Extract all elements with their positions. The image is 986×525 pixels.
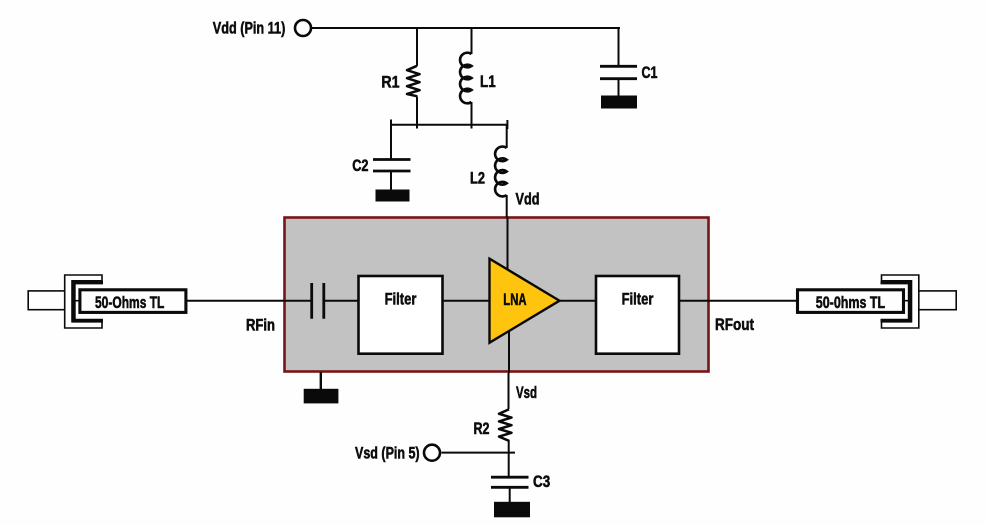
label L1 bbox=[480, 73, 496, 91]
capacitor C1 bbox=[600, 66, 637, 78]
ground C1 bbox=[601, 96, 637, 109]
svg-text:Vdd: Vdd bbox=[516, 191, 540, 209]
svg-text:LNA: LNA bbox=[503, 291, 526, 309]
capacitor C2 bbox=[373, 160, 411, 172]
wire L1 lower lead bbox=[471, 102, 473, 129]
ground C2 bbox=[376, 190, 410, 202]
label Filter 2 bbox=[622, 291, 654, 309]
label RFout bbox=[715, 316, 754, 334]
wire R1 upper lead bbox=[416, 28, 418, 66]
wire RFout bbox=[679, 300, 798, 302]
label L2 bbox=[470, 169, 485, 187]
svg-text:Filter: Filter bbox=[622, 291, 654, 309]
transmission line box right bbox=[798, 290, 904, 313]
wire LNA supply (inside box) bbox=[507, 218, 509, 273]
label 50-Ohms TL left bbox=[95, 294, 164, 312]
connector right plug body bbox=[919, 291, 956, 310]
svg-text:50-0hms TL: 50-0hms TL bbox=[816, 294, 885, 312]
wire stub connector to TL box left bbox=[74, 300, 80, 302]
terminal Vsd (Pin 5) label bbox=[355, 444, 420, 462]
wire R1 lower lead bbox=[416, 97, 418, 129]
svg-text:Vsd (Pin 5): Vsd (Pin 5) bbox=[355, 444, 420, 462]
svg-text:R2: R2 bbox=[474, 420, 490, 438]
label RFin bbox=[246, 317, 275, 335]
label Filter 1 bbox=[385, 291, 417, 309]
wire RFin bbox=[187, 300, 311, 302]
svg-text:C2: C2 bbox=[352, 157, 368, 175]
svg-text:Vdd (Pin 11): Vdd (Pin 11) bbox=[213, 20, 285, 38]
wire ground stub under box bbox=[320, 372, 322, 392]
wire L1 upper lead bbox=[471, 28, 473, 54]
wire cap to Filter1 bbox=[324, 300, 359, 302]
resistor R2 bbox=[499, 409, 512, 441]
terminal Vdd (Pin 11) label bbox=[213, 20, 285, 38]
label C3 bbox=[533, 473, 550, 491]
connector left outer shell bbox=[65, 275, 102, 328]
wire Vsd lead bbox=[508, 373, 510, 409]
wire L2 upper lead bbox=[506, 125, 508, 148]
wire node bus bbox=[391, 124, 507, 126]
svg-text:L1: L1 bbox=[480, 73, 496, 91]
wire C2 lower lead bbox=[390, 172, 392, 190]
connector left plug body bbox=[28, 291, 65, 310]
inductor L1 bbox=[460, 53, 471, 104]
node Vdd label bbox=[516, 191, 540, 209]
wire C3 lower lead bbox=[509, 488, 511, 503]
connector right inner bracket bbox=[881, 283, 910, 321]
label 50-0hms TL right bbox=[816, 294, 885, 312]
svg-text:RFout: RFout bbox=[715, 316, 754, 334]
amplifier block (gray box) bbox=[285, 218, 709, 372]
node Vsd label bbox=[516, 384, 537, 402]
inductor L2 bbox=[495, 147, 507, 197]
ground C3 bbox=[494, 502, 530, 518]
wire R2 lower lead bbox=[508, 440, 510, 477]
wire stub TL box to connector right bbox=[904, 300, 911, 302]
svg-text:50-Ohms TL: 50-Ohms TL bbox=[95, 294, 164, 312]
Filter box 1 bbox=[359, 276, 443, 354]
wire L2 lower lead bbox=[506, 195, 508, 218]
svg-text:Filter: Filter bbox=[385, 291, 417, 309]
svg-text:R1: R1 bbox=[381, 74, 399, 92]
wire C1 upper lead bbox=[618, 28, 620, 65]
label R1 bbox=[381, 74, 399, 92]
wire LNA to Filter2 bbox=[560, 300, 597, 302]
capacitor C3 bbox=[491, 477, 529, 487]
ground under box bbox=[304, 389, 339, 404]
svg-text:RFin: RFin bbox=[246, 317, 275, 335]
terminal Vsd (Pin 5) circle bbox=[424, 445, 440, 461]
label C2 bbox=[352, 157, 368, 175]
wire LNA output-side supply (below) bbox=[508, 331, 510, 373]
label LNA bbox=[503, 291, 526, 309]
svg-text:L2: L2 bbox=[470, 169, 485, 187]
connector left inner bracket bbox=[74, 283, 103, 321]
capacitor DC block (series) bbox=[312, 283, 324, 319]
svg-text:Vsd: Vsd bbox=[516, 384, 537, 402]
label R2 bbox=[474, 420, 490, 438]
wire Vsd terminal to junction bbox=[442, 452, 516, 454]
label C1 bbox=[642, 64, 658, 82]
op-amp LNA bbox=[490, 259, 560, 343]
terminal Vdd (Pin 11) circle bbox=[295, 20, 311, 36]
junction tick right bbox=[506, 120, 508, 129]
wire top rail bbox=[312, 27, 620, 29]
transmission line box left bbox=[80, 290, 186, 313]
connector right outer shell bbox=[882, 275, 919, 328]
Filter box 2 bbox=[596, 276, 679, 354]
svg-text:C3: C3 bbox=[533, 473, 550, 491]
svg-text:C1: C1 bbox=[642, 64, 658, 82]
wire C1 lower lead bbox=[618, 80, 620, 96]
wire C2 upper lead bbox=[390, 125, 392, 159]
wire Filter1 to LNA bbox=[443, 300, 491, 302]
junction tick left bbox=[390, 120, 392, 130]
resistor R1 bbox=[407, 66, 420, 97]
